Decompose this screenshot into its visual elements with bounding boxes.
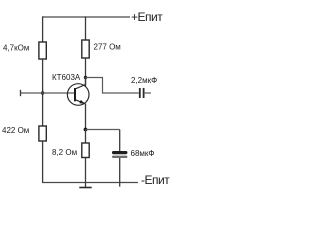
resistor R1 4,7kOm body <box>39 42 46 59</box>
capacitor C2 68mkF top plate <box>112 151 127 154</box>
transistor Q1 KT603A circle <box>67 84 89 106</box>
wire bypass branch lower (C2 to bottom rail, small overshoot) <box>119 158 121 187</box>
resistor R4 8,2 Om body <box>82 143 89 158</box>
wire collector branch upper (rail to R2) <box>85 16 87 40</box>
svg-text:4,7кОм: 4,7кОм <box>3 44 29 53</box>
wire emitter node to R4 <box>85 130 87 144</box>
input terminal tick <box>20 90 22 96</box>
svg-text:422 Ом: 422 Ом <box>2 126 29 135</box>
svg-text:-Епит: -Епит <box>141 173 170 187</box>
node A junction dot (base divider tap) <box>41 91 44 94</box>
resistor R3 422 Om body <box>39 126 46 141</box>
wire emitter branch (transistor to node B) <box>85 104 87 130</box>
capacitor C1 2,2mkF plates <box>140 88 144 98</box>
wire bottom rail -Epit <box>42 182 138 184</box>
svg-text:2,2мкФ: 2,2мкФ <box>131 76 157 85</box>
svg-text:8,2 Ом: 8,2 Ом <box>52 148 77 157</box>
wire R4 to bottom rail and ground stub <box>85 158 87 188</box>
wire left branch lower (R3 to bottom rail) <box>42 141 44 183</box>
ground bar <box>79 187 91 189</box>
node B junction dot (emitter node) <box>84 128 88 132</box>
node collector junction dot <box>84 76 87 79</box>
capacitor C2 68mkF bottom plate <box>112 156 127 158</box>
resistor R2 277 Om body <box>82 40 89 58</box>
wire left branch upper (rail to R1) <box>42 16 44 42</box>
wire collector branch lower (R2 to transistor collector) <box>85 58 87 87</box>
svg-text:68мкФ: 68мкФ <box>131 149 155 158</box>
wire collector into circle <box>85 78 87 86</box>
transistor Q1 collector stroke <box>75 85 86 89</box>
svg-text:+Епит: +Епит <box>131 10 163 24</box>
wire top rail +Epit <box>42 16 130 18</box>
transistor Q1 emitter stroke with arrow <box>75 100 86 104</box>
wire output stub (C1 to output) <box>145 92 151 94</box>
svg-text:277 Ом: 277 Ом <box>94 43 121 52</box>
wire bypass branch vertical upper (to C2 top plate) <box>119 130 121 152</box>
wire left branch middle (R1 to node A to R3) <box>42 59 44 126</box>
wire bypass branch horizontal (node B to C2 branch) <box>86 129 120 131</box>
svg-text:КТ603А: КТ603А <box>52 73 81 82</box>
wire output coupling (collector node to C1) <box>86 78 139 94</box>
wire input base lead <box>21 92 75 94</box>
transistor Q1 base bar <box>74 88 76 101</box>
